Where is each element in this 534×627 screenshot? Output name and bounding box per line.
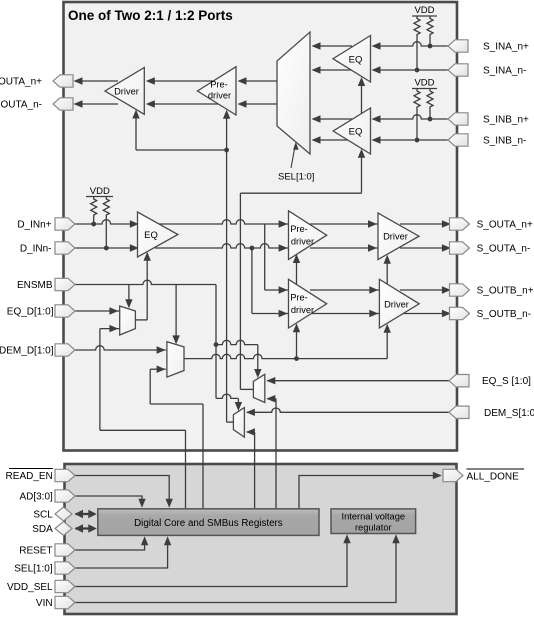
pin S_INA_n+	[448, 40, 468, 52]
svg-text:driver: driver	[291, 236, 314, 246]
mux1 EQ_D selector	[120, 306, 136, 335]
wire driver B2 to S_OUTB pins	[400, 289, 451, 291]
resistor VDD pull-up B2	[427, 89, 433, 120]
wire mux3 select	[216, 340, 258, 344]
svg-text:Internal voltage: Internal voltage	[342, 511, 406, 521]
junction D_INn+ pull-up	[91, 222, 96, 227]
wire SMBus DEM value to mux2	[149, 369, 151, 404]
wire driver B2 control	[386, 331, 388, 359]
mux top 2:1 selector	[277, 32, 310, 154]
svg-text:RESET: RESET	[19, 546, 52, 557]
wire S_INA_n+ to EQ A	[373, 42, 448, 46]
wire mux3 out to top EQ control	[240, 192, 361, 194]
wire ENSMB to mux2 select	[175, 285, 177, 338]
resistor VDD pull-up D2	[103, 197, 109, 249]
pin EQ_D[1:0]	[55, 305, 75, 317]
svg-text:VIN: VIN	[36, 598, 53, 609]
pin S_INB_n-	[448, 134, 468, 146]
wire SCL bidirectional	[76, 513, 95, 515]
wire D_INn- to EQ	[75, 247, 139, 249]
svg-text:Driver: Driver	[114, 86, 139, 96]
svg-text:ALL_DONE: ALL_DONE	[467, 472, 520, 483]
svg-text:Driver: Driver	[384, 299, 409, 309]
svg-text:D_INn-: D_INn-	[20, 244, 52, 255]
svg-text:Digital Core and SMBus Registe: Digital Core and SMBus Registers	[134, 518, 283, 529]
pin OUTA_n-	[53, 98, 73, 110]
wire S_INA_n- to EQ A	[373, 69, 448, 71]
wire ENSMB	[75, 280, 216, 284]
junction pre-driver control B	[294, 356, 299, 361]
wire mux1 out to EQ control	[135, 319, 147, 321]
resistor VDD pull-up A2	[427, 16, 433, 46]
driver B1	[378, 213, 419, 260]
pin ENSMB	[55, 278, 75, 290]
pin VDD_SEL	[55, 580, 75, 592]
pin VIN	[55, 596, 75, 608]
pin SEL[1:0]	[55, 562, 75, 574]
SEL[1:0] annotation	[291, 146, 295, 168]
wire SMBus EQ value to mux1	[99, 329, 101, 431]
svg-text:OUTA_n+: OUTA_n+	[0, 77, 42, 88]
wire ENSMB to mux1 select	[128, 285, 130, 302]
wire ENSMB to mux4 select	[216, 394, 238, 398]
pin S_OUTB_n+	[450, 284, 470, 296]
wire mux3 out	[240, 388, 253, 390]
svg-text:Pre-: Pre-	[210, 79, 228, 89]
junction D_INn- pull-up	[104, 246, 109, 251]
resistor VDD pull-up A1	[414, 16, 420, 70]
svg-text:Driver: Driver	[383, 232, 408, 242]
pin D_INn+	[55, 218, 75, 230]
svg-text:SDA: SDA	[32, 524, 53, 535]
resistor VDD pull-up B1	[414, 89, 420, 141]
svg-text:driver: driver	[291, 305, 314, 315]
svg-text:OUTA_n-: OUTA_n-	[1, 100, 43, 111]
wire AD[3:0] to digital core	[75, 496, 142, 502]
wire mux2 out de-emphasis control B	[184, 354, 387, 358]
wire fanout to pre-driver B2 in-	[251, 248, 253, 314]
svg-text:SCL: SCL	[33, 510, 53, 521]
svg-text:Pre-: Pre-	[290, 224, 308, 234]
pin READ_EN	[55, 469, 75, 481]
pin S_OUTA_n+	[450, 218, 470, 230]
svg-text:VDD: VDD	[414, 5, 434, 16]
pin DEM_S[1:0]	[449, 406, 469, 418]
pin S_OUTB_n-	[450, 307, 470, 319]
wire EQ A out to mux	[313, 45, 352, 47]
pin ALL_DONE	[443, 469, 463, 481]
port block box (One of Two 2:1 / 1:2 Ports)	[64, 2, 458, 451]
svg-text:S_OUTA_n-: S_OUTA_n-	[477, 244, 531, 255]
svg-text:S_OUTB_n-: S_OUTB_n-	[477, 309, 531, 320]
resistor VDD pull-up D1	[91, 197, 97, 225]
driver B2	[379, 279, 419, 328]
pre-driver B2	[289, 279, 327, 328]
junction ENSMB to mux3 select	[214, 342, 219, 347]
pin SCL	[55, 507, 72, 521]
wire VIN to regulator	[75, 539, 396, 603]
wire RESET to digital core	[75, 541, 145, 550]
pin DEM_D[1:0]	[55, 344, 75, 356]
wire mux out to pre-driver A	[239, 80, 277, 82]
VDD pull-up rail D	[86, 196, 113, 198]
svg-text:VDD_SEL: VDD_SEL	[7, 582, 53, 593]
svg-text:EQ_D[1:0]: EQ_D[1:0]	[7, 307, 54, 318]
internal voltage regulator block	[331, 509, 416, 534]
wire D_INn+ to EQ	[75, 220, 139, 224]
wire S_INB_n- to EQ B	[373, 139, 448, 141]
wire VDD_SEL to regulator	[75, 539, 347, 587]
svg-text:EQ_S [1:0]: EQ_S [1:0]	[482, 376, 531, 387]
driver A (top)	[105, 68, 144, 115]
wire pre-driver B1 to driver B1	[310, 223, 379, 225]
mux2 DEM_D selector	[167, 342, 184, 377]
svg-text:S_INB_n-: S_INB_n-	[483, 136, 526, 147]
wire top EQ control	[361, 155, 363, 193]
wire driver B1 control	[386, 262, 388, 285]
pin EQ_S[1:0]	[449, 375, 469, 387]
wire mux4 out to top de-emphasis	[227, 421, 234, 423]
EQ block D (middle)	[138, 212, 178, 257]
wire S_INB_n+ to EQ B	[373, 115, 448, 119]
wire driver A to OUTA pins	[75, 80, 118, 82]
pin D_INn-	[55, 242, 75, 254]
svg-text:READ_EN: READ_EN	[6, 471, 53, 482]
svg-text:DEM_S[1:0]: DEM_S[1:0]	[484, 408, 534, 419]
wire EQ_S[1:0] to mux3	[267, 380, 449, 382]
wire ALL_DONE from digital core	[299, 476, 440, 509]
EQ block B (top)	[333, 108, 370, 154]
wire READ_EN to digital core	[75, 476, 169, 503]
svg-text:EQ: EQ	[349, 127, 363, 138]
wire pre-driver A to driver A	[148, 80, 217, 82]
svg-text:One of Two 2:1 / 1:2 Ports: One of Two 2:1 / 1:2 Ports	[68, 8, 233, 23]
svg-text:SEL[1:0]: SEL[1:0]	[278, 172, 314, 183]
svg-text:regulator: regulator	[355, 522, 392, 532]
wire driver B1 to S_OUTA pins	[400, 223, 451, 225]
junction driver control	[224, 148, 229, 153]
wire SDA bidirectional	[76, 527, 95, 529]
svg-text:VDD: VDD	[414, 78, 434, 89]
wire DEM_D[1:0] to mux2	[75, 346, 166, 350]
pin S_INA_n-	[448, 64, 468, 76]
SMBus/digital block box	[65, 464, 457, 614]
EQ block A (top)	[333, 36, 371, 83]
mux4 DEM_S selector	[233, 408, 244, 438]
svg-text:DEM_D[1:0]: DEM_D[1:0]	[0, 346, 54, 357]
svg-text:EQ: EQ	[349, 54, 363, 65]
svg-text:D_INn+: D_INn+	[17, 220, 51, 231]
pin SDA	[55, 522, 72, 536]
digital core block	[98, 509, 319, 536]
svg-text:Pre-: Pre-	[290, 292, 308, 302]
wire fanout to pre-driver B2 in+	[264, 224, 266, 290]
pin OUTA_n+	[53, 75, 73, 87]
wire EQ B out to mux	[313, 118, 352, 120]
wire driver A de-emphasis control	[135, 115, 137, 150]
wire SMBus DEM_S value to mux4	[254, 432, 256, 509]
svg-text:AD[3:0]: AD[3:0]	[19, 492, 53, 503]
svg-text:EQ: EQ	[144, 230, 158, 241]
VDD pull-up rail A	[412, 15, 437, 17]
svg-text:ENSMB: ENSMB	[17, 280, 53, 291]
pin S_INB_n+	[448, 113, 468, 125]
wire pre-driver B2 to driver B2	[310, 289, 380, 291]
VDD pull-up rail B	[412, 88, 437, 90]
wire SEL[1:0] to digital core	[75, 541, 168, 568]
wire pre-driver B2 control	[296, 330, 298, 359]
svg-text:driver: driver	[208, 90, 231, 100]
wire EQ_D[1:0] to mux1	[75, 310, 120, 312]
svg-text:S_OUTB_n+: S_OUTB_n+	[477, 286, 534, 297]
svg-text:S_INA_n+: S_INA_n+	[483, 42, 529, 53]
pre-driver A (top)	[198, 67, 237, 115]
svg-text:S_OUTA_n+: S_OUTA_n+	[477, 220, 533, 231]
wire pre-driver A control	[226, 116, 228, 151]
wire EQ out A+ to pre-driver B1	[158, 220, 289, 224]
pre-driver B1	[289, 211, 327, 260]
wire EQ out A- to pre-driver B1	[155, 244, 289, 248]
wire SMBus EQ_S value to mux3	[275, 399, 277, 509]
pin RESET	[55, 544, 75, 556]
svg-text:SEL[1:0]: SEL[1:0]	[14, 564, 53, 575]
pin AD[3:0]	[55, 490, 75, 502]
wire DEM_S[1:0] to mux4	[247, 408, 449, 412]
wire pre-driver B1 control	[296, 262, 298, 285]
mux3 EQ_S selector	[253, 374, 264, 402]
svg-text:VDD: VDD	[90, 186, 110, 197]
svg-text:S_INA_n-: S_INA_n-	[483, 66, 526, 77]
junction EQ out fanout	[250, 246, 255, 251]
svg-text:S_INB_n+: S_INB_n+	[483, 115, 529, 126]
pin S_OUTA_n-	[450, 242, 470, 254]
